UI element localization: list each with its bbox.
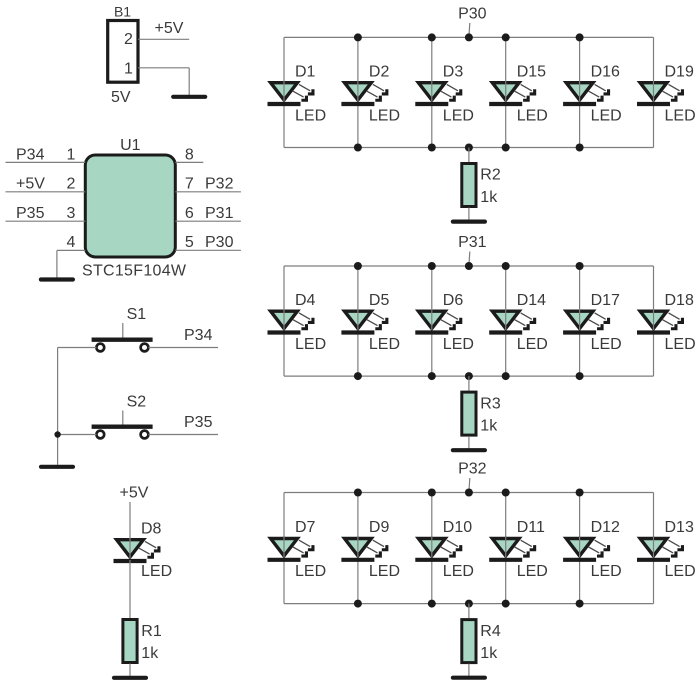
wire U1 pin 5 <box>175 249 241 251</box>
svg-text:LED: LED <box>369 563 400 580</box>
LED D11 <box>489 537 536 560</box>
wire R4 to ground <box>468 664 470 676</box>
svg-text:1k: 1k <box>141 645 159 662</box>
svg-text:LED: LED <box>443 336 474 353</box>
svg-text:D1: D1 <box>295 63 316 80</box>
junction P32 bottom rail col 2 <box>354 600 362 608</box>
wire R3 to ground <box>468 436 470 448</box>
IC U1 (MCU STC15F104W) <box>85 155 175 257</box>
battery B1 label <box>114 4 131 20</box>
D2 value LED <box>369 107 400 124</box>
net label P32 (bank header) <box>458 460 487 477</box>
svg-text:LED: LED <box>443 107 474 124</box>
net label +5V (U1 pin 2) <box>16 176 45 193</box>
LED D8 <box>114 538 161 561</box>
R1 value 1k <box>141 645 159 662</box>
net label P34 (U1 pin 1) <box>16 146 45 163</box>
U1 pin number 8 <box>185 146 194 163</box>
D10 reference label <box>443 519 472 536</box>
D5 reference label <box>369 292 390 309</box>
battery B1 value 5V <box>111 89 131 106</box>
svg-text:P34: P34 <box>16 146 45 163</box>
LED D12 <box>563 537 610 560</box>
U1 value STC15F104W <box>82 263 187 280</box>
LED D10 <box>415 537 462 560</box>
junction P31 top rail col 4 <box>502 262 510 270</box>
LED D5 <box>341 310 388 333</box>
svg-text:P34: P34 <box>184 327 213 344</box>
ground (R4) <box>453 676 485 680</box>
D3 value LED <box>443 107 474 124</box>
junction P31 bottom rail col 4 <box>502 372 510 380</box>
wire column D10 <box>431 493 433 604</box>
junction P30 top rail col 4 <box>502 33 510 41</box>
wire U1 pin 1 <box>6 161 86 163</box>
svg-text:LED: LED <box>517 563 548 580</box>
wire switches common to ground <box>57 348 59 465</box>
svg-text:LED: LED <box>141 563 172 580</box>
svg-text:P32: P32 <box>458 460 487 477</box>
LED D17 <box>563 310 610 333</box>
svg-text:LED: LED <box>591 563 622 580</box>
svg-text:7: 7 <box>185 176 194 193</box>
svg-text:R1: R1 <box>141 623 162 640</box>
svg-text:1: 1 <box>124 61 133 78</box>
wire column D7 <box>283 493 285 604</box>
D16 reference label <box>591 63 620 80</box>
net label P32 (U1 pin 7) <box>205 176 234 193</box>
svg-text:1k: 1k <box>480 418 498 435</box>
junction P30 bottom rail col 5 <box>576 144 584 152</box>
wire S1 right contact to P34 <box>148 347 218 349</box>
wire P30 entry <box>468 23 471 37</box>
svg-text:B1: B1 <box>114 4 131 20</box>
D10 value LED <box>443 563 474 580</box>
svg-text:R4: R4 <box>480 623 501 640</box>
wire P31 top rail <box>284 265 654 267</box>
wire column D17 <box>579 266 581 376</box>
LED D6 <box>415 310 462 333</box>
wire P32 entry <box>468 478 471 492</box>
svg-text:LED: LED <box>517 336 548 353</box>
wire P30 top rail <box>284 36 654 38</box>
junction P31 top rail col 5 <box>576 262 584 270</box>
net label P31 (U1 pin 6) <box>205 205 234 222</box>
LED D13 <box>637 537 684 560</box>
ground (switches) <box>41 465 73 469</box>
svg-text:LED: LED <box>443 563 474 580</box>
net label +5V (D8 branch) <box>120 485 149 502</box>
svg-text:5: 5 <box>185 234 194 251</box>
D19 value LED <box>665 107 696 124</box>
svg-text:P31: P31 <box>458 234 487 251</box>
wire U1 pin 8 <box>175 161 203 163</box>
battery B1 <box>108 21 138 83</box>
D9 value LED <box>369 563 400 580</box>
svg-text:+5V: +5V <box>16 176 45 193</box>
svg-text:D10: D10 <box>443 519 472 536</box>
R3 value 1k <box>480 418 498 435</box>
svg-text:+5V: +5V <box>120 485 149 502</box>
LED D18 <box>637 310 684 333</box>
net label P30 (U1 pin 5) <box>205 234 234 251</box>
junction P32 top rail col 3 <box>428 489 436 497</box>
svg-text:D17: D17 <box>591 292 620 309</box>
svg-text:P31: P31 <box>205 205 234 222</box>
svg-text:D11: D11 <box>517 519 545 536</box>
D17 reference label <box>591 292 620 309</box>
D15 value LED <box>517 107 548 124</box>
svg-text:LED: LED <box>591 336 622 353</box>
D4 value LED <box>295 336 326 353</box>
wire U1 pin 4 to ground <box>57 250 85 277</box>
wire column D4 <box>283 266 285 376</box>
svg-text:LED: LED <box>295 563 326 580</box>
U1 pin number 7 <box>185 176 194 193</box>
junction P30 bottom rail col 3 <box>428 144 436 152</box>
D12 reference label <box>591 519 620 536</box>
R2 value 1k <box>480 189 498 206</box>
junction switches common node <box>54 431 60 437</box>
junction P32 top rail col 2 <box>354 489 362 497</box>
wire P30 bottom rail <box>284 147 654 149</box>
D18 value LED <box>665 336 696 353</box>
battery B1 pin 2 number <box>124 31 133 48</box>
svg-text:LED: LED <box>665 563 696 580</box>
svg-text:P30: P30 <box>458 5 487 22</box>
D17 value LED <box>591 336 622 353</box>
svg-text:D18: D18 <box>665 292 694 309</box>
junction P31 bottom rail col 5 <box>576 372 584 380</box>
wire column D13 <box>653 493 655 604</box>
junction P30 bottom rail col 4 <box>502 144 510 152</box>
LED D14 <box>489 310 536 333</box>
battery B1 pin 1 number <box>124 61 133 78</box>
U1 pin number 6 <box>185 205 194 222</box>
switch S1 label <box>127 306 147 323</box>
wire column D3 <box>431 37 433 147</box>
junction P31 top rail col 2 <box>354 262 362 270</box>
D19 reference label <box>665 63 694 80</box>
U1 pin number 2 <box>67 176 76 193</box>
svg-text:D12: D12 <box>591 519 620 536</box>
D7 value LED <box>295 563 326 580</box>
D2 reference label <box>369 63 390 80</box>
LED D2 <box>341 81 388 104</box>
D3 reference label <box>443 63 464 80</box>
D7 reference label <box>295 519 316 536</box>
svg-text:D19: D19 <box>665 63 694 80</box>
junction R4 tap <box>465 600 473 608</box>
svg-text:D6: D6 <box>443 292 464 309</box>
svg-text:D15: D15 <box>517 63 546 80</box>
wire D8 to R1 <box>129 560 131 618</box>
wire P32 top rail <box>284 492 654 494</box>
LED D3 <box>415 81 462 104</box>
svg-text:1k: 1k <box>480 189 498 206</box>
D8 reference label <box>141 521 162 538</box>
wire U1 pin 2 <box>6 191 86 193</box>
D13 reference label <box>665 519 694 536</box>
net label P34 (switch S1) <box>184 327 213 344</box>
wire B1 pin2 to +5V <box>138 38 189 40</box>
svg-text:STC15F104W: STC15F104W <box>82 263 187 280</box>
R4 reference label <box>480 623 501 640</box>
wire column D19 <box>653 37 655 147</box>
svg-text:LED: LED <box>665 107 696 124</box>
junction P30 entry <box>465 33 473 41</box>
svg-text:P32: P32 <box>205 176 234 193</box>
wire +5V to D8 <box>129 502 131 560</box>
junction P32 top rail col 5 <box>576 489 584 497</box>
svg-text:1: 1 <box>67 146 76 163</box>
svg-text:1k: 1k <box>480 645 498 662</box>
wire column D18 <box>653 266 655 376</box>
D9 reference label <box>369 519 390 536</box>
svg-text:D16: D16 <box>591 63 620 80</box>
junction P30 top rail col 3 <box>428 33 436 41</box>
svg-text:2: 2 <box>67 176 76 193</box>
junction P31 top rail col 3 <box>428 262 436 270</box>
D1 reference label <box>295 63 316 80</box>
svg-text:D9: D9 <box>369 519 390 536</box>
D11 reference label <box>517 519 545 536</box>
svg-text:D14: D14 <box>517 292 546 309</box>
wire rail to R2 <box>468 148 470 163</box>
svg-text:D3: D3 <box>443 63 464 80</box>
U1 reference label <box>120 137 141 154</box>
svg-text:D13: D13 <box>665 519 694 536</box>
junction P32 top rail col 4 <box>502 489 510 497</box>
svg-text:S1: S1 <box>127 306 147 323</box>
D12 value LED <box>591 563 622 580</box>
LED D9 <box>341 537 388 560</box>
D18 reference label <box>665 292 694 309</box>
svg-text:P35: P35 <box>16 205 45 222</box>
svg-text:S2: S2 <box>127 394 147 411</box>
svg-text:D7: D7 <box>295 519 316 536</box>
junction R3 tap <box>465 372 473 380</box>
wire column D9 <box>357 493 359 604</box>
svg-text:P30: P30 <box>205 234 234 251</box>
svg-text:D8: D8 <box>141 521 162 538</box>
wire R2 to ground <box>468 208 470 220</box>
svg-text:5V: 5V <box>111 89 131 106</box>
svg-text:LED: LED <box>517 107 548 124</box>
ground (U1 pin 4) <box>41 277 73 281</box>
wire S2 left contact <box>58 434 97 436</box>
D4 reference label <box>295 292 316 309</box>
ground (R3) <box>453 448 485 452</box>
net label P31 (bank header) <box>458 234 487 251</box>
wire column D5 <box>357 266 359 376</box>
net label P30 (bank header) <box>458 5 487 22</box>
D1 value LED <box>295 107 326 124</box>
junction P31 bottom rail col 3 <box>428 372 436 380</box>
LED D15 <box>489 81 536 104</box>
D8 value LED <box>141 563 172 580</box>
wire column D14 <box>505 266 507 376</box>
wire R1 to ground <box>129 664 131 677</box>
switch S2 <box>92 411 153 439</box>
svg-text:R3: R3 <box>480 395 501 412</box>
svg-text:3: 3 <box>67 205 76 222</box>
wire rail to R4 <box>468 604 470 619</box>
R4 value 1k <box>480 645 498 662</box>
svg-text:LED: LED <box>369 336 400 353</box>
LED D19 <box>637 81 684 104</box>
wire column D6 <box>431 266 433 376</box>
wire column D16 <box>579 37 581 147</box>
svg-text:D5: D5 <box>369 292 390 309</box>
D14 value LED <box>517 336 548 353</box>
D11 value LED <box>517 563 548 580</box>
junction P31 entry <box>465 262 473 270</box>
svg-text:LED: LED <box>295 336 326 353</box>
wire column D12 <box>579 493 581 604</box>
svg-text:+5V: +5V <box>155 20 184 37</box>
junction P32 bottom rail col 4 <box>502 600 510 608</box>
junction P32 bottom rail col 5 <box>576 600 584 608</box>
R2 reference label <box>480 167 501 184</box>
resistor R1 <box>123 620 137 663</box>
junction P30 top rail col 5 <box>576 33 584 41</box>
svg-text:U1: U1 <box>120 137 141 154</box>
LED D16 <box>563 81 610 104</box>
junction P32 entry <box>465 489 473 497</box>
U1 pin number 1 <box>67 146 76 163</box>
D5 value LED <box>369 336 400 353</box>
resistor R2 <box>462 164 476 207</box>
svg-text:2: 2 <box>124 31 133 48</box>
junction P32 bottom rail col 3 <box>428 600 436 608</box>
svg-text:P35: P35 <box>184 414 213 431</box>
U1 pin number 3 <box>67 205 76 222</box>
wire B1 pin1 to ground <box>138 68 189 96</box>
LED D1 <box>268 81 315 104</box>
svg-text:8: 8 <box>185 146 194 163</box>
svg-text:D4: D4 <box>295 292 316 309</box>
net label P35 (switch S2) <box>184 414 213 431</box>
svg-text:LED: LED <box>369 107 400 124</box>
wire rail to R3 <box>468 376 470 391</box>
wire column D15 <box>505 37 507 147</box>
ground (R1) <box>114 676 146 680</box>
junction P31 bottom rail col 2 <box>354 372 362 380</box>
svg-text:LED: LED <box>295 107 326 124</box>
wire column D11 <box>505 493 507 604</box>
D14 reference label <box>517 292 546 309</box>
D16 value LED <box>591 107 622 124</box>
U1 pin number 5 <box>185 234 194 251</box>
svg-text:4: 4 <box>67 234 76 251</box>
R1 reference label <box>141 623 162 640</box>
wire S1 left contact <box>58 347 97 349</box>
ground (battery) <box>173 95 205 99</box>
wire P32 bottom rail <box>284 603 654 605</box>
junction R2 tap <box>465 144 473 152</box>
net label +5V (battery) <box>155 20 184 37</box>
resistor R3 <box>462 392 476 435</box>
svg-text:LED: LED <box>665 336 696 353</box>
U1 pin number 4 <box>67 234 76 251</box>
resistor R4 <box>462 620 476 663</box>
D6 reference label <box>443 292 464 309</box>
wire column D2 <box>357 37 359 147</box>
LED D7 <box>268 537 315 560</box>
net label P35 (U1 pin 3) <box>16 205 45 222</box>
D6 value LED <box>443 336 474 353</box>
LED D4 <box>268 310 315 333</box>
D13 value LED <box>665 563 696 580</box>
svg-text:LED: LED <box>591 107 622 124</box>
switch S1 <box>92 323 153 351</box>
wire U1 pin 7 <box>175 191 241 193</box>
wire column D1 <box>283 37 285 147</box>
wire P31 bottom rail <box>284 375 654 377</box>
junction P30 bottom rail col 2 <box>354 144 362 152</box>
junction P30 top rail col 2 <box>354 33 362 41</box>
wire S2 right contact to P35 <box>148 434 218 436</box>
R3 reference label <box>480 395 501 412</box>
D15 reference label <box>517 63 546 80</box>
svg-text:6: 6 <box>185 205 194 222</box>
switch S2 label <box>127 394 147 411</box>
wire U1 pin 6 <box>175 220 241 222</box>
svg-text:D2: D2 <box>369 63 390 80</box>
wire P31 entry <box>468 252 471 266</box>
wire U1 pin 3 <box>6 220 86 222</box>
ground (R2) <box>453 220 485 224</box>
svg-text:R2: R2 <box>480 167 501 184</box>
